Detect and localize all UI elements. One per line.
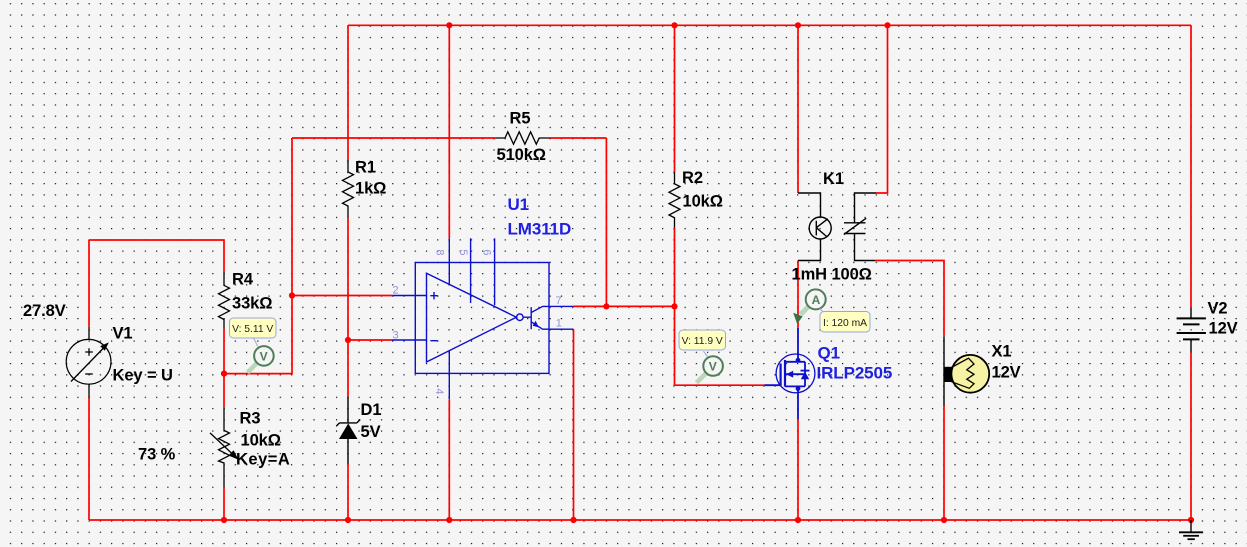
svg-text:1: 1 — [556, 317, 562, 329]
svg-text:5: 5 — [457, 249, 469, 255]
junction top rail R2 — [671, 22, 677, 28]
wire R4 R3 column — [223, 240, 225, 520]
voltage source V1 — [66, 327, 111, 398]
wire relay contact branch — [875, 25, 944, 520]
svg-text:IRLP2505: IRLP2505 — [817, 364, 893, 383]
svg-text:A: A — [812, 293, 821, 307]
wire output pin7 to R2 — [574, 305, 675, 307]
wire V1 top horizontal — [89, 239, 224, 241]
current probe connector line — [820, 309, 823, 313]
svg-text:Q1: Q1 — [818, 343, 840, 362]
svg-text:1mH 100Ω: 1mH 100Ω — [792, 266, 872, 284]
svg-text:5V: 5V — [361, 423, 381, 441]
junction bottom R3 — [221, 517, 227, 523]
svg-text:33kΩ: 33kΩ — [232, 295, 272, 313]
potentiometer R3 — [219, 407, 230, 487]
ground — [1179, 520, 1203, 539]
current probe circle A — [806, 289, 826, 309]
wire op-amp V+ pin8 — [448, 25, 450, 238]
junction bottom pin1 — [570, 517, 576, 523]
voltage probe 1 handle — [248, 363, 257, 372]
wire V2 column — [1190, 25, 1192, 520]
wire bottom rail — [89, 519, 1191, 521]
wire jog R4 bottom to pin2 net — [224, 296, 292, 374]
junction top rail pin8 — [446, 22, 452, 28]
voltage probe 1 box V: 5.11 V — [230, 318, 277, 338]
wire op-amp pin4 to ground rail — [448, 399, 450, 520]
svg-text:2: 2 — [393, 285, 399, 297]
voltage probe 1 connector — [254, 338, 258, 346]
junction node R4 bottom — [221, 371, 227, 377]
voltage probe 2 handle — [697, 373, 706, 382]
junction node pin3 — [345, 337, 351, 343]
junction bottom pin4 — [446, 517, 452, 523]
voltage probe 2 box V: 11.9 V — [679, 330, 726, 350]
resistor R5 — [495, 132, 550, 144]
lamp lead — [943, 336, 945, 406]
resistor R1 — [343, 160, 354, 217]
wire R1 D1 column — [347, 25, 349, 520]
svg-text:I: 120 mA: I: 120 mA — [823, 318, 867, 329]
svg-text:R2: R2 — [682, 169, 703, 187]
svg-text:V: 5.11 V: V: 5.11 V — [232, 324, 273, 335]
svg-text:8: 8 — [434, 249, 446, 255]
svg-text:7: 7 — [556, 295, 562, 307]
op-amp U1 LM311D — [392, 238, 574, 399]
svg-text:10kΩ: 10kΩ — [241, 432, 281, 450]
svg-text:R5: R5 — [510, 110, 531, 128]
svg-text:V: V — [260, 349, 268, 363]
voltage probe 2 circle — [703, 356, 723, 376]
svg-text:U1: U1 — [508, 195, 530, 214]
junction output R2 — [671, 303, 677, 309]
svg-text:4: 4 — [433, 388, 445, 394]
battery V2 — [1177, 308, 1206, 352]
svg-text:D1: D1 — [361, 401, 382, 419]
svg-text:V2: V2 — [1208, 300, 1228, 318]
junction bottom D1 — [345, 517, 351, 523]
lamp X1 — [944, 367, 952, 382]
wire left column V1 branch — [88, 240, 90, 520]
svg-text:R3: R3 — [240, 410, 261, 428]
svg-text:Key=A: Key=A — [236, 451, 290, 469]
wire pin2 horizontal — [292, 295, 392, 297]
svg-text:V: 11.9 V: V: 11.9 V — [682, 336, 723, 347]
junction bottom mosfet — [795, 517, 801, 523]
wire R5 horizontal — [292, 138, 606, 306]
voltage probe 2 connector — [704, 351, 708, 356]
svg-text:1kΩ: 1kΩ — [355, 180, 386, 198]
wire pin1 down — [573, 329, 575, 520]
wire pin3 horizontal — [348, 339, 392, 341]
current probe box I: 120 mA — [820, 312, 870, 333]
resistor R2 — [669, 172, 680, 227]
svg-text:6: 6 — [481, 249, 493, 255]
relay K1 contact — [844, 193, 876, 261]
svg-text:12V: 12V — [992, 364, 1021, 382]
wire R5 net left vertical — [291, 138, 293, 296]
svg-text:10kΩ: 10kΩ — [683, 193, 723, 211]
svg-text:3: 3 — [393, 330, 399, 342]
wire top rail — [348, 24, 1191, 26]
junction top rail coil — [795, 22, 801, 28]
svg-text:V: V — [709, 360, 717, 374]
voltage probe 1 circle — [254, 346, 274, 366]
resistor R4 — [219, 272, 230, 329]
svg-text:73 %: 73 % — [138, 446, 176, 464]
junction node pin2 — [289, 292, 295, 298]
wire relay coil branch — [797, 25, 799, 520]
svg-text:R1: R1 — [355, 159, 376, 177]
svg-text:27.8V: 27.8V — [23, 302, 66, 320]
wire R2 column — [674, 25, 676, 306]
wire R2 to gate — [675, 306, 765, 385]
junction output R5 — [603, 303, 609, 309]
zener diode D1 — [336, 397, 360, 464]
svg-text:R4: R4 — [232, 271, 254, 289]
svg-text:X1: X1 — [992, 343, 1012, 361]
junction top rail contact — [884, 22, 890, 28]
junction bottom V2 ground — [1188, 517, 1194, 523]
svg-text:V1: V1 — [113, 325, 133, 343]
svg-text:Key = U: Key = U — [113, 367, 173, 385]
svg-text:510kΩ: 510kΩ — [497, 146, 546, 164]
svg-text:K1: K1 — [823, 170, 844, 188]
relay K1 coil — [798, 193, 831, 261]
svg-text:12V: 12V — [1209, 320, 1238, 338]
mosfet Q1 — [765, 328, 815, 419]
junction bottom lamp — [941, 517, 947, 523]
current probe arrow — [801, 307, 809, 315]
svg-text:LM311D: LM311D — [508, 219, 572, 238]
